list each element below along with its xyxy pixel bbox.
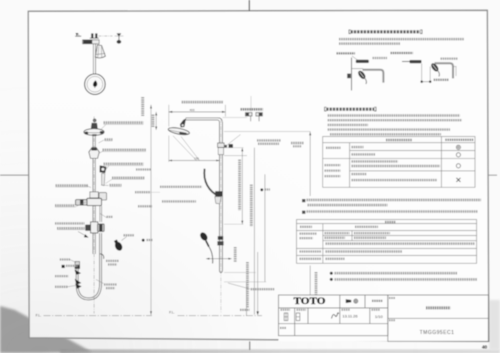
mini diagram right: shower bar profile xyxy=(435,63,454,78)
label: hose joint xyxy=(55,275,69,277)
side view: ceiling flange right B xyxy=(256,113,263,116)
label: slide bar xyxy=(112,176,145,179)
table 1 mark row3 circle xyxy=(456,164,460,168)
side view: dim 150 under head xyxy=(169,160,220,162)
mini diagram left: leader xyxy=(352,56,358,60)
side view: head extension line down xyxy=(168,136,170,163)
side view: head leader lines down xyxy=(173,136,197,161)
front view: faucet body xyxy=(87,198,102,205)
centering mark top xyxy=(248,0,250,11)
label: flow handle xyxy=(55,204,75,206)
front view: left knob xyxy=(85,225,91,231)
label: grip xyxy=(124,234,135,236)
stamp headers xyxy=(281,309,291,311)
front view: hose tube right of bar xyxy=(99,206,101,222)
side view: leader to slide bar label xyxy=(227,135,241,146)
side view: label shower head mounting center xyxy=(182,101,224,104)
detail view: ceiling flange xyxy=(83,40,100,44)
svg-text:F.L.: F.L. xyxy=(169,311,175,315)
annotation dot 2 xyxy=(260,188,263,191)
table 1 row 1 text xyxy=(352,146,364,148)
detail view: shower body cone xyxy=(95,45,105,58)
label: diverter handle two lines xyxy=(55,222,85,224)
info block 2 line 1 xyxy=(328,114,460,116)
front view: faucet upper works xyxy=(90,192,99,198)
svg-text:150: 150 xyxy=(194,156,199,160)
front view: pipe below diverter xyxy=(92,158,94,192)
front view: hand shower in hanger xyxy=(102,173,105,185)
side view: vertical pipe center line xyxy=(220,119,222,314)
unit cell text xyxy=(372,300,383,302)
detail view: drop pipe xyxy=(92,44,94,75)
side view: mid extension line xyxy=(224,147,244,149)
label: left handle label xyxy=(56,184,89,186)
table 1: wall type applicability xyxy=(323,137,475,188)
side view: ceiling anchor right label xyxy=(241,108,264,111)
signature scribble xyxy=(332,313,339,319)
centering mark bottom xyxy=(249,341,251,350)
side view: tall left dimension xyxy=(150,105,152,315)
centering mark left xyxy=(0,174,29,176)
table 1 header: applicability xyxy=(445,139,473,141)
detail view: shower head face circle xyxy=(85,74,106,95)
note A line 1 xyxy=(302,199,305,202)
side view: bottom dim to floor xyxy=(246,282,248,316)
mini diagram left: valve handle xyxy=(347,74,351,79)
mini diagram left: stop valve body xyxy=(356,60,369,63)
label: slide bar upper right two lines xyxy=(257,139,281,141)
projection symbol xyxy=(346,299,351,303)
side view: hand shower at lowest position xyxy=(199,231,209,242)
detail view: ceiling hatch symbol left xyxy=(75,35,81,37)
info block 2 line 5 xyxy=(330,133,441,135)
spec row temperature xyxy=(300,258,322,260)
mini diagram left: valve label xyxy=(337,52,356,54)
product name (shower bar) xyxy=(426,306,451,309)
table 1 header: location xyxy=(386,139,412,141)
spec row 2 merged label xyxy=(300,232,318,234)
label: knob xyxy=(101,184,109,187)
label: bottom right label xyxy=(251,288,275,290)
side view: left small label C xyxy=(138,205,152,207)
mini diagram right: valve label xyxy=(391,52,414,54)
front view: top ball fitting xyxy=(93,119,96,122)
label: knob small xyxy=(60,258,70,260)
side view: hand shower in hanger mid xyxy=(215,191,222,196)
mini diagram left: hand shower on bar xyxy=(357,69,367,80)
info block 1 text line 2 xyxy=(339,42,400,45)
annotation dot 1 xyxy=(142,239,145,242)
svg-text:1/10: 1/10 xyxy=(375,314,384,319)
side view: right dim C xyxy=(264,174,266,282)
mini diagram left: supply pipe xyxy=(351,58,353,91)
front view: left handle xyxy=(76,200,88,206)
gray table surface bottom-left corner xyxy=(0,306,92,353)
info block 2 line 3 xyxy=(328,124,368,126)
label: check valve xyxy=(55,286,68,288)
table 1 row 2 text xyxy=(352,153,376,155)
mini diagram right: supply pipe xyxy=(402,61,410,63)
side view: far right tall dim (floor height) xyxy=(309,132,311,197)
label: temp mark right xyxy=(100,214,107,218)
info block 2 line 2 xyxy=(328,119,462,121)
side view: left small label B xyxy=(135,191,151,193)
front view: hose from valve xyxy=(78,233,99,298)
detail view: hanger bolt marks center xyxy=(91,33,93,38)
mini diagram right: shower bar label xyxy=(441,57,459,59)
table 1 mark row2 circle xyxy=(456,153,460,157)
front view: thermostat body xyxy=(91,222,98,233)
label: far right dim text xyxy=(291,142,304,144)
label: small bottom note xyxy=(240,309,250,311)
front view: diverter body xyxy=(89,148,100,159)
table 1 row 3 text (2 lines) xyxy=(352,160,399,162)
spec row water quality xyxy=(300,250,322,252)
side view: vertical text near bottom hanger xyxy=(234,247,237,262)
svg-text:F.L.: F.L. xyxy=(36,314,42,318)
side view: pipe bottom rounded cap xyxy=(220,269,223,273)
front view: pipe faucet to thermostat xyxy=(92,206,94,222)
spec sub row a xyxy=(325,232,350,234)
info block 1 text line 1 xyxy=(339,38,464,41)
svg-text:TMGG95EC1: TMGG95EC1 xyxy=(420,330,455,336)
bullet note 2 xyxy=(330,278,333,281)
note B xyxy=(302,211,305,214)
table 1 left cell B (3 lines) xyxy=(325,164,341,166)
stamp 2 xyxy=(296,313,300,321)
side view: elbow to head (dark) xyxy=(180,118,186,127)
mini diagram right: hand shower on bar xyxy=(430,62,440,73)
detail view: anchor symbol right xyxy=(117,33,122,36)
table 1 left cell A xyxy=(326,147,341,149)
mini diagram left: shower bar label xyxy=(373,57,388,59)
label: mid-left range label xyxy=(160,186,202,188)
label: shower hanger xyxy=(104,166,109,173)
info block 2 header xyxy=(325,107,327,111)
side view: slide rail top fitting xyxy=(218,143,225,147)
front view center line xyxy=(93,117,95,314)
mini diagram right: hanging dim extension xyxy=(453,66,457,68)
mini diagram right: 150mm label xyxy=(434,79,449,81)
front view: hose guide hook xyxy=(100,254,104,259)
part name label xyxy=(389,297,396,299)
side view: dim 115 left of head xyxy=(155,112,157,130)
centering mark right xyxy=(488,174,497,176)
front view: overhead shower head (edge view) xyxy=(91,123,97,128)
side view: low dim arrow xyxy=(206,258,232,260)
label: eccentric joint xyxy=(99,140,105,143)
side view: dim line to floor with arrow xyxy=(257,252,259,315)
side view: hose S-curve xyxy=(204,169,219,197)
stamp 1 xyxy=(284,313,288,321)
side view: ceiling flange right A xyxy=(245,113,252,116)
label: hose length right xyxy=(106,260,119,262)
table 1 row 4 text (2 lines) xyxy=(352,173,367,175)
spec note row xyxy=(326,242,475,245)
side view: right dim A (1030) xyxy=(241,148,243,225)
spec row 1 label and value xyxy=(300,226,312,228)
side view: horizontal pipe xyxy=(186,118,223,269)
front view: right knob xyxy=(98,224,105,231)
detail view: center dash line xyxy=(99,35,113,37)
bullet note 1 xyxy=(330,272,333,275)
front view: pipe below thermostat xyxy=(92,233,94,254)
spec table xyxy=(297,220,477,264)
front view: hose end fittings xyxy=(75,262,80,265)
svg-text:TOTO: TOTO xyxy=(294,297,326,307)
side view: pipe top extension to right anchor xyxy=(222,117,247,119)
label: drain note right xyxy=(96,280,104,284)
side view: top dimension line 400 xyxy=(168,105,170,127)
side view: faint extension up from flange xyxy=(250,96,252,112)
title block outer xyxy=(279,295,489,341)
front view: shower hanger (dark) xyxy=(100,165,107,173)
row3 small label xyxy=(280,327,287,329)
label: slide bar upper xyxy=(100,151,105,154)
front view: upper pipe xyxy=(92,136,94,148)
mini diagram left: shower bar profile xyxy=(363,70,384,83)
side view: overhead shower head tilted xyxy=(168,126,190,136)
side view: hanger at lowest position xyxy=(218,236,223,240)
note A line 2 xyxy=(308,204,388,207)
front view: hand shower head (dark) xyxy=(112,239,123,252)
side view: right dim B xyxy=(253,148,255,315)
mini diagram right: dim lines xyxy=(421,64,423,83)
table 1 mark row4 cross xyxy=(456,178,460,182)
gray strip along bottom edge xyxy=(60,350,500,353)
part no label xyxy=(389,319,396,321)
info block 2 line 4 xyxy=(328,128,450,130)
svg-text:400: 400 xyxy=(189,108,194,112)
label: drain plug with bullet xyxy=(62,265,65,268)
svg-text:13.11.26: 13.11.26 xyxy=(342,314,358,319)
mini diagram right: stop valve body xyxy=(410,60,422,63)
spec sub row b xyxy=(325,237,346,239)
info block 1 header xyxy=(349,30,351,34)
label: mid-left lowest label xyxy=(162,200,196,202)
table 1 mark row1 double circle xyxy=(456,145,460,149)
spec table header xyxy=(385,221,396,223)
side view: left small label A xyxy=(136,168,151,170)
svg-text:40: 40 xyxy=(482,344,488,349)
label: overhead shower xyxy=(101,125,106,130)
